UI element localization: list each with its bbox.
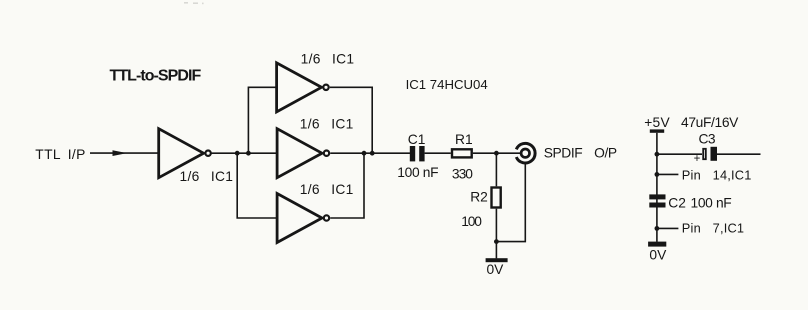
wire +5V to C3	[657, 153, 702, 155]
inverter middle 1/6 IC1	[277, 129, 329, 178]
svg-text:0V: 0V	[649, 247, 667, 262]
svg-text:Pin 7,IC1: Pin 7,IC1	[682, 221, 744, 236]
wire +5V vertical rail	[656, 133, 658, 242]
scan speckles top	[184, 2, 204, 4]
inverter top 1/6 IC1	[277, 63, 329, 112]
wire R1 to connector	[473, 152, 520, 154]
svg-text:1/6 IC1: 1/6 IC1	[301, 52, 355, 67]
junction dot pin7	[655, 226, 660, 231]
connector SPDIF O/P phono socket	[516, 143, 535, 163]
capacitor C3 polarized	[703, 147, 717, 161]
svg-text:1/6 IC1: 1/6 IC1	[300, 182, 354, 197]
wire pin14 stub	[657, 173, 679, 175]
capacitor C2	[649, 194, 665, 207]
svg-text:Pin 14,IC1: Pin 14,IC1	[682, 167, 752, 182]
junction dot C	[494, 151, 499, 156]
svg-text:0V: 0V	[487, 262, 505, 277]
junction dot ground node	[494, 239, 499, 244]
resistor R1	[452, 149, 472, 157]
svg-text:IC1 74HCU04: IC1 74HCU04	[406, 77, 488, 92]
svg-text:R1: R1	[455, 132, 473, 147]
svg-text:+5V: +5V	[644, 115, 670, 130]
svg-text:R2: R2	[470, 190, 488, 205]
svg-text:330: 330	[452, 166, 473, 181]
wire C3 right stub	[717, 153, 761, 155]
svg-text:SPDIF O/P: SPDIF O/P	[544, 146, 617, 161]
inverter bottom 1/6 IC1	[277, 194, 329, 243]
svg-text:TTL-to-SPDIF: TTL-to-SPDIF	[110, 68, 202, 85]
junction dot +5V to C3	[655, 152, 660, 157]
wire middle inverter input	[248, 152, 277, 154]
svg-text:+: +	[694, 153, 701, 165]
svg-text:TTL I/P: TTL I/P	[35, 147, 85, 162]
inverter U1 input 1/6 IC1	[159, 129, 211, 178]
svg-text:100: 100	[461, 214, 482, 229]
wire bottom inverter output up to main	[330, 153, 364, 218]
junction dot B2	[370, 151, 375, 156]
junction dot pin14	[655, 172, 660, 177]
wire TTL input	[90, 152, 159, 154]
wire rail down to bottom inverter input	[237, 153, 277, 218]
wire R2 to ground node	[495, 209, 497, 242]
ground bar 0V (right)	[648, 242, 666, 247]
svg-text:C1: C1	[408, 132, 426, 147]
junction dot A1	[235, 151, 240, 156]
arrowhead input	[113, 150, 128, 156]
capacitor C1	[410, 146, 425, 161]
svg-text:1/6 IC1: 1/6 IC1	[180, 169, 234, 184]
junction dot B1	[362, 151, 367, 156]
wire node down to R2	[495, 153, 497, 186]
wire rail up to top inverter input	[248, 87, 276, 153]
ground bar 0V (left)	[486, 258, 508, 262]
svg-text:1/6 IC1: 1/6 IC1	[300, 116, 354, 131]
svg-text:100 nF: 100 nF	[397, 165, 438, 180]
resistor R2	[492, 188, 501, 208]
svg-text:C3: C3	[699, 132, 716, 147]
svg-text:100 nF: 100 nF	[691, 196, 732, 211]
wire ground stub	[495, 242, 497, 259]
wire pin7 stub	[657, 227, 679, 229]
wire top inverter output down to main	[330, 87, 372, 153]
wire C1 to R1	[425, 152, 451, 154]
wire main to C1	[330, 152, 410, 154]
+5V rail bar	[650, 129, 664, 132]
svg-text:C2: C2	[668, 195, 686, 210]
wire inverter1 output to input rail	[211, 152, 248, 154]
wire connector shield down	[496, 164, 525, 242]
junction dot A2	[246, 151, 251, 156]
svg-text:47uF/16V: 47uF/16V	[681, 115, 739, 130]
